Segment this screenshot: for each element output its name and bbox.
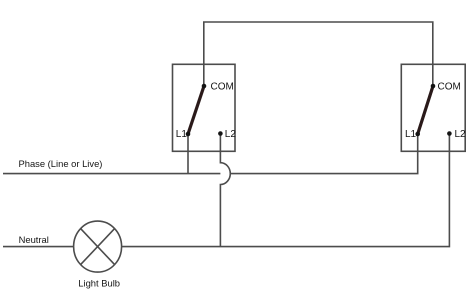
SW1 L1 terminal dot — [186, 132, 191, 137]
svg-text:L1: L1 — [405, 129, 417, 140]
wire: phase line left segment — [3, 173, 220, 175]
wire: top run COM SW1 to COM SW2 — [204, 22, 433, 86]
wire: lamp to SW2 L2 — [122, 134, 450, 247]
svg-text:Light Bulb: Light Bulb — [78, 278, 120, 289]
wire: phase line right segment to SW2 L1 — [230, 134, 417, 174]
SW2 COM terminal dot — [431, 84, 436, 89]
SW1 L2 terminal dot — [218, 131, 223, 136]
svg-text:Phase (Line or Live): Phase (Line or Live) — [19, 158, 103, 169]
svg-text:L2: L2 — [455, 129, 467, 140]
SW1 lever COM-L1 — [188, 86, 204, 134]
SW2 lever COM-L1 — [418, 86, 433, 134]
svg-text:L2: L2 — [225, 129, 237, 140]
lamp circle — [74, 221, 122, 272]
lamp cross line 2 — [81, 229, 115, 265]
svg-text:Neutral: Neutral — [19, 234, 49, 245]
svg-text:L1: L1 — [176, 129, 188, 140]
wire: neutral left segment — [3, 246, 74, 248]
switch SW1 box — [173, 64, 236, 151]
SW2 L2 terminal dot — [447, 131, 452, 136]
switch SW2 box — [401, 64, 465, 151]
SW1 COM terminal dot — [202, 84, 207, 89]
wire hop: SW1 L2 down over phase to neutral run — [220, 134, 230, 247]
lamp cross line 1 — [81, 229, 115, 265]
wire: SW1 L1 down to phase — [187, 134, 189, 174]
svg-text:COM: COM — [438, 82, 461, 93]
SW2 L1 terminal dot — [415, 132, 420, 137]
svg-text:COM: COM — [211, 82, 234, 93]
